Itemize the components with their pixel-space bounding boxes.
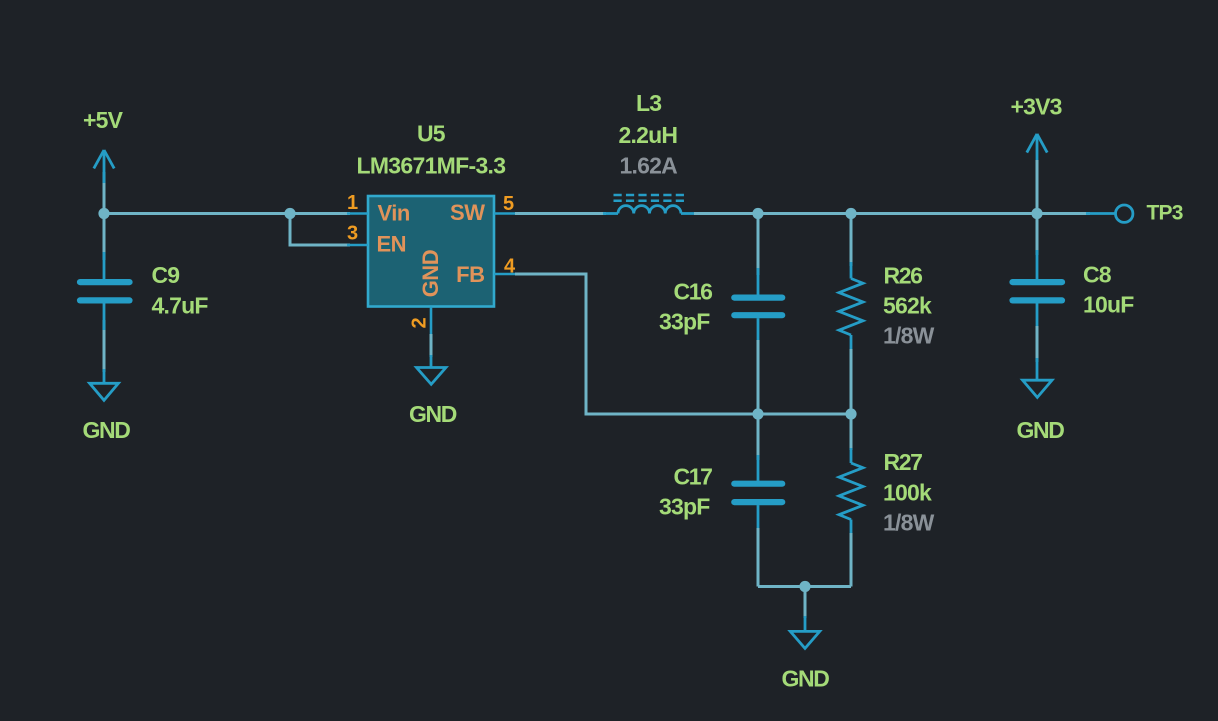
svg-text:4: 4 <box>504 256 516 278</box>
wire: R27 vertical bottom <box>850 533 853 587</box>
ground symbol (U5) <box>417 355 446 384</box>
svg-text:33pF: 33pF <box>659 308 710 334</box>
svg-text:+5V: +5V <box>83 107 124 133</box>
svg-text:3: 3 <box>347 223 358 245</box>
svg-text:562k: 562k <box>883 293 932 319</box>
wire: C8 vertical top <box>1036 214 1039 256</box>
junction: EN tap <box>284 208 295 219</box>
svg-text:2: 2 <box>408 317 430 328</box>
wire: R26 vertical top <box>850 214 853 267</box>
svg-text:1/8W: 1/8W <box>883 322 935 348</box>
svg-text:GND: GND <box>418 250 443 297</box>
svg-text:1: 1 <box>347 192 358 214</box>
svg-text:C16: C16 <box>674 279 713 305</box>
wire: +5V vertical <box>103 172 106 260</box>
wire: GND drop <box>804 587 807 619</box>
svg-text:100k: 100k <box>883 479 932 505</box>
wire: C16 vertical bottom <box>757 340 760 414</box>
wire: +3V3 vertical <box>1036 160 1039 214</box>
svg-text:C9: C9 <box>152 262 180 288</box>
junction: bottom GND tap <box>799 581 810 592</box>
wire: SW to inductor <box>515 212 606 215</box>
svg-text:C8: C8 <box>1083 261 1112 287</box>
resistor R27 <box>839 448 863 535</box>
capacitor C8 <box>1013 250 1063 330</box>
capacitor C17 <box>734 455 782 531</box>
ground symbol (C9) <box>90 369 119 400</box>
wire: pin2 to ground <box>430 334 433 357</box>
junction: +3V3/C8 tap <box>1031 208 1042 219</box>
power flag +5V arrow <box>94 150 114 183</box>
junction: C16 tap <box>752 208 763 219</box>
svg-text:R26: R26 <box>884 262 923 288</box>
junction: +5V rail at C9 <box>98 208 109 219</box>
svg-text:+3V3: +3V3 <box>1011 93 1062 119</box>
svg-text:EN: EN <box>377 231 407 256</box>
wire: C17 vertical top <box>757 414 760 460</box>
svg-text:1.62A: 1.62A <box>620 153 678 179</box>
svg-text:L3: L3 <box>636 90 661 116</box>
svg-text:TP3: TP3 <box>1147 202 1183 225</box>
svg-text:4.7uF: 4.7uF <box>152 293 209 319</box>
junction: FB rail at C17 <box>752 408 763 419</box>
wire: C8 to GND <box>1036 326 1039 362</box>
svg-text:FB: FB <box>456 262 484 287</box>
wire: R27 vertical top <box>850 414 853 450</box>
wire: C16 vertical top <box>757 214 760 276</box>
wire: bottom rail <box>758 585 851 588</box>
ground symbol (C8) <box>1023 358 1052 397</box>
resistor R26 <box>839 262 863 351</box>
power flag +3V3 arrow <box>1027 134 1047 166</box>
svg-text:1/8W: 1/8W <box>883 510 935 536</box>
wire: EN branch <box>290 214 350 246</box>
inductor L3 <box>603 195 696 214</box>
svg-text:GND: GND <box>409 401 457 427</box>
pin 1 Vin stub <box>347 212 368 215</box>
svg-text:GND: GND <box>782 665 830 691</box>
svg-text:GND: GND <box>1017 417 1065 443</box>
pin 4 FB stub <box>494 273 515 276</box>
svg-text:2.2uH: 2.2uH <box>619 122 678 148</box>
pin 5 SW stub <box>494 212 515 215</box>
test point TP3 circle <box>1116 205 1133 222</box>
IC U5 body <box>368 196 494 307</box>
wire: R26 vertical bottom <box>850 349 853 414</box>
svg-text:C17: C17 <box>674 464 713 490</box>
svg-text:Vin: Vin <box>378 201 410 226</box>
junction: FB rail at R27 <box>845 408 856 419</box>
pin 2 GND stub <box>430 307 433 336</box>
svg-text:33pF: 33pF <box>659 494 710 520</box>
svg-text:U5: U5 <box>417 121 446 147</box>
test point TP3 lead <box>1086 212 1115 215</box>
wire: inductor to TP3 <box>694 212 1090 215</box>
junction: R26 tap <box>845 208 856 219</box>
svg-text:5: 5 <box>503 193 514 215</box>
pin 3 EN stub <box>347 244 368 247</box>
ground symbol (bottom) <box>790 616 819 648</box>
wire: C17 vertical bottom <box>757 528 760 587</box>
capacitor C16 <box>734 268 782 345</box>
wire: FB net <box>515 274 851 414</box>
svg-text:GND: GND <box>83 417 131 443</box>
wire: to test point <box>1037 212 1090 215</box>
wire: +5V rail to U5 pin1 <box>104 212 350 215</box>
svg-text:SW: SW <box>450 200 485 225</box>
svg-text:LM3671MF-3.3: LM3671MF-3.3 <box>357 153 506 179</box>
capacitor C9 <box>80 252 130 330</box>
svg-text:R27: R27 <box>884 449 923 475</box>
wire: C9 to GND <box>103 320 106 372</box>
svg-text:10uF: 10uF <box>1083 292 1134 318</box>
